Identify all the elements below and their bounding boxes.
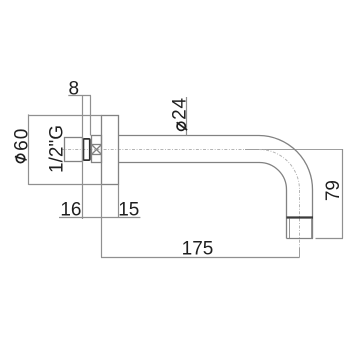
dimension O60 extension top	[29, 115, 102, 117]
outlet end edge	[287, 238, 314, 240]
bend outer arc	[259, 136, 313, 191]
dimension 79 extension bottom	[316, 238, 344, 240]
centerline vertical extension to 175 dimension	[299, 248, 301, 258]
centerline horizontal (spout axis, dash-dot)	[61, 149, 245, 151]
dimension label O24 diameter symbol	[177, 122, 188, 130]
threaded inlet pipe 1/2"G	[65, 138, 83, 162]
locking nut (bold outline)	[83, 139, 89, 160]
aerator insert sides	[290, 219, 312, 239]
dimension label 79 (rotated)	[323, 180, 344, 201]
svg-text:1/2"G: 1/2"G	[46, 125, 67, 173]
svg-text:79: 79	[323, 180, 344, 201]
aerator ring band (bold)	[287, 216, 314, 218]
dimension O60 line	[28, 114, 30, 184]
dimension label O60 value digits (rotated)	[12, 128, 33, 151]
spout tube top edge	[119, 135, 260, 137]
centerline extension to 79 dimension	[245, 149, 343, 151]
dimension 16/15 extension (flange left edge, shared with 175)	[101, 185, 103, 258]
svg-text:8: 8	[69, 78, 80, 99]
svg-text:16: 16	[60, 200, 81, 221]
svg-text:60: 60	[12, 128, 33, 151]
dimension label 8	[69, 78, 80, 99]
svg-text:15: 15	[118, 200, 139, 221]
centerline arc of bend (dash-dot)	[259, 149, 300, 190]
dimension 16/15 line	[59, 217, 140, 219]
dimension 175 line	[101, 257, 300, 259]
dimension 8 extension line right (nut right edge)	[90, 96, 92, 136]
centerline vertical (outlet axis, dash-dot)	[299, 190, 301, 248]
dimension label 15	[118, 200, 139, 221]
svg-text:24: 24	[170, 97, 191, 120]
dimension label O24 value digits (rotated)	[170, 97, 191, 120]
dimension 8 line	[68, 95, 91, 97]
dimension label 16	[60, 200, 81, 221]
thread section cross (X)	[92, 145, 102, 155]
outlet tube right edge	[312, 190, 314, 239]
svg-text:175: 175	[182, 238, 214, 259]
bend inner arc	[259, 162, 287, 190]
outlet tube left edge	[286, 190, 288, 239]
dimension O24 leader line	[186, 97, 188, 136]
dimension label 175	[182, 238, 214, 259]
dimension O60 extension bottom	[29, 184, 102, 186]
spout tube bottom edge	[119, 162, 260, 164]
thread section block between nut and flange	[92, 136, 102, 163]
wall flange (escutcheon, side view)	[102, 116, 119, 185]
dimension 16/15 extension (flange right edge)	[118, 185, 120, 219]
thread label 1/2"G (rotated)	[46, 125, 67, 173]
dimension 79 line	[342, 149, 344, 239]
dimension label O60 diameter symbol	[15, 154, 27, 162]
dimension 8 extension line left (nut left edge)	[82, 96, 84, 220]
